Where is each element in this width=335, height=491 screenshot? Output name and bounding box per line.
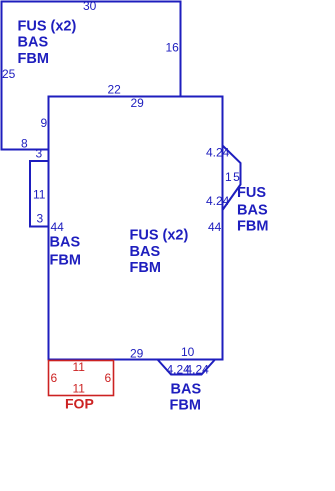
svg-text:FOP: FOP [65, 396, 94, 412]
svg-text:BAS: BAS [237, 203, 268, 219]
svg-text:BAS: BAS [50, 235, 81, 251]
svg-text:6: 6 [105, 371, 112, 385]
svg-text:10: 10 [181, 345, 195, 359]
svg-text:4.24: 4.24 [206, 194, 230, 208]
svg-text:FBM: FBM [237, 219, 268, 235]
svg-text:FBM: FBM [170, 398, 201, 414]
svg-text:BAS: BAS [171, 382, 202, 398]
svg-text:9: 9 [41, 116, 48, 130]
svg-text:6: 6 [51, 371, 58, 385]
area outline: bottom bay window BAS/FBM [158, 360, 216, 375]
svg-text:30: 30 [83, 0, 97, 13]
svg-text:44: 44 [208, 220, 222, 234]
area outline: main rectangle FUS(x2)/BAS/FBM [49, 97, 223, 360]
svg-text:BAS: BAS [130, 244, 161, 260]
svg-text:11: 11 [73, 360, 86, 374]
area outline: right bay window FUS/BAS/FBM [223, 146, 241, 211]
svg-text:15: 15 [225, 170, 241, 184]
svg-text:FUS (x2): FUS (x2) [130, 228, 189, 244]
svg-text:22: 22 [108, 83, 122, 97]
area outline: red FOP porch rectangle [49, 361, 114, 396]
svg-text:FUS: FUS [237, 185, 266, 201]
svg-text:FBM: FBM [18, 51, 49, 67]
svg-text:FBM: FBM [130, 260, 161, 276]
svg-text:29: 29 [130, 347, 144, 361]
svg-text:11: 11 [73, 382, 86, 396]
svg-text:8: 8 [21, 137, 28, 151]
svg-text:FBM: FBM [50, 253, 81, 269]
svg-text:29: 29 [131, 96, 145, 110]
svg-text:4.24: 4.24 [186, 363, 210, 377]
svg-text:44: 44 [51, 220, 65, 234]
svg-text:3: 3 [37, 212, 44, 226]
svg-text:16: 16 [166, 41, 180, 55]
svg-text:25: 25 [2, 67, 16, 81]
svg-text:3: 3 [36, 147, 43, 161]
area outline: top-left L-shaped section FUS(x2)/BAS/FBM [2, 2, 181, 150]
svg-text:FUS (x2): FUS (x2) [18, 19, 77, 35]
svg-text:11: 11 [33, 188, 46, 202]
svg-text:BAS: BAS [18, 35, 49, 51]
svg-text:4.24: 4.24 [206, 146, 230, 160]
area outline: small left rectangle 3x11 [30, 161, 49, 227]
